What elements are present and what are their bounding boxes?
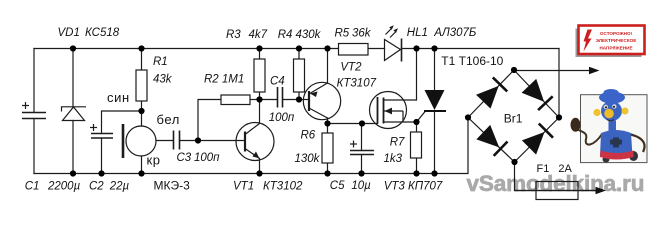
svg-text:36k: 36k [352,27,372,39]
wire R3 leads [259,49,261,60]
svg-text:VD1: VD1 [58,27,80,39]
svg-text:R1: R1 [153,56,168,68]
svg-text:HL1: HL1 [407,27,428,39]
node T1 anode top [431,45,437,51]
node C5 top / VT3 gate [359,120,365,126]
warning sign [576,26,645,58]
node T1 cathode bottom [431,170,437,176]
resistor R1 [136,70,147,101]
resistor R4 [294,59,305,92]
svg-text:22µ: 22µ [109,181,130,193]
neck [609,121,617,132]
svg-text:VT3 КП707: VT3 КП707 [384,181,443,193]
wire VT2 emitter riser [327,49,329,84]
svg-text:VT1: VT1 [233,180,254,192]
resistor R6 [322,133,333,163]
bridge Br1 [468,70,559,162]
wire left edge C1 branch [33,49,35,113]
svg-text:VT2: VT2 [340,62,362,74]
node R3 C4 [256,96,262,102]
wire top rail left [34,48,339,50]
LED HL1 [385,25,402,61]
resistor R3 [254,59,265,92]
node VD1 bottom [70,170,76,176]
node bridge bottom [511,159,517,165]
node mic bottom [138,170,144,176]
svg-text:vSamodelkina.ru: vSamodelkina.ru [467,171,645,196]
belt [600,151,634,160]
wire R5 to LED [368,48,385,50]
wire VD1 branch [72,49,74,107]
node R7 bottom [413,170,419,176]
wire LED cathode to right corner [402,48,560,50]
capacitor C4 [278,87,283,108]
resistor R5 [339,44,369,56]
node VT3 source R7 [413,119,419,125]
wire bridge top output [514,70,590,72]
wire bottom rail [34,118,468,174]
svg-text:Br1: Br1 [504,112,523,126]
wire VT1 emitter fall [259,159,261,174]
right arm wire [628,134,645,152]
node R3 top [256,45,262,51]
node bridge right [556,114,562,120]
capacitor C5 [350,141,374,155]
svg-text:1k3: 1k3 [384,153,403,165]
wire T1 gate [417,111,426,122]
wire R7 leads [416,122,418,132]
svg-text:100п: 100п [194,152,220,164]
svg-text:КТ3107: КТ3107 [337,78,377,90]
thyristor T1 [424,90,446,111]
fist plug [571,118,581,132]
node bridge left [465,114,471,120]
arrow output top [589,67,600,74]
wire C4 leads [260,99,278,101]
wire mic bottom [141,156,143,174]
svg-text:2А: 2А [558,163,572,175]
wire R6 bottom [327,163,329,174]
svg-text:F1: F1 [537,163,550,175]
wire T1 anode [434,49,436,91]
wire right vertical to bridge [558,49,560,118]
robot photo [571,89,648,163]
capacitor C1 [22,102,46,119]
svg-text:ЭЛЕКТРИЧЕСКОЕ: ЭЛЕКТРИЧЕСКОЕ [596,38,637,43]
svg-text:КТ3102: КТ3102 [263,180,303,192]
node bridge top [511,67,517,73]
svg-text:C5: C5 [330,180,345,192]
svg-text:R4: R4 [278,29,293,41]
wire T1 cathode [434,111,436,174]
svg-text:10µ: 10µ [351,180,371,192]
transistor VT2 [303,82,340,119]
svg-text:4k7: 4k7 [249,29,268,41]
svg-text:кр: кр [147,153,161,168]
svg-text:син: син [107,90,130,105]
bridge diode D4 bottom-right [522,124,553,155]
wire VT2 base [299,99,309,101]
bridge diode D1 top-left [476,77,507,108]
node R4 top [296,45,302,51]
node C3 R2 [195,137,201,143]
wire C2 riser [102,111,142,134]
resistor R2 [221,95,250,105]
capacitor C3 [174,131,180,150]
fuse F1 [515,182,597,200]
chest cross [613,138,619,148]
wire R2 left lead [198,100,221,141]
wire R1 bottom to mic [141,101,143,126]
bridge diode D3 bottom-left [476,125,507,156]
left arm wire [577,129,602,145]
svg-text:КС518: КС518 [85,27,120,39]
wire collector bus to gate [328,123,378,125]
wire VT3 source to node [384,121,417,123]
wire mic to C3 [156,140,173,142]
svg-text:43k: 43k [153,74,173,86]
arrow output bottom [596,187,607,194]
bridge diode D2 top-right [522,79,553,110]
microphone MKE-3 [123,124,156,158]
svg-text:C1: C1 [25,181,40,193]
svg-text:R6: R6 [301,130,316,142]
svg-text:R2 1M1: R2 1M1 [204,74,244,86]
zener diode VD1 [62,107,87,121]
ear left [593,109,600,116]
body [600,130,633,159]
svg-text:ОСТОРОЖНО!: ОСТОРОЖНО! [600,31,633,36]
wire bridge bottom output [515,162,597,191]
node VT2 emitter top [324,45,330,51]
node R6 bottom [324,170,330,176]
eyes [604,105,608,109]
node C2 bottom [98,170,104,176]
wire R2 right lead [250,99,260,101]
node R4 VT2 base [296,96,302,102]
svg-text:130k: 130k [295,153,321,165]
svg-text:100п: 100п [269,112,295,124]
wire R4 leads [298,49,300,60]
svg-text:R5: R5 [335,27,350,39]
lightning bolt [584,30,593,52]
svg-text:C2: C2 [89,181,104,193]
svg-text:АЛ307Б: АЛ307Б [433,27,477,39]
wire VT3 drain riser [384,49,417,101]
node VT3 drain top [413,45,419,51]
node C5 bottom [358,170,364,176]
mouth [607,120,614,121]
wire VT2 collector down [327,118,329,133]
node VT1 emitter bottom [256,170,262,176]
svg-text:R7: R7 [390,137,405,149]
capacitor C2 [90,124,113,138]
wire C5 leads [361,124,363,151]
svg-text:C3: C3 [177,152,192,164]
svg-text:НАПРЯЖЕНИЕ: НАПРЯЖЕНИЕ [599,46,632,51]
feet [603,157,610,163]
node R1 mic [138,108,144,114]
head [601,101,622,121]
node VT2 collector [324,120,330,126]
svg-text:МКЭ-3: МКЭ-3 [154,179,191,193]
wire VT1 collector riser [259,100,261,123]
node VD1 top [70,45,76,51]
svg-text:бел: бел [157,112,180,127]
wire R1 top [141,49,143,71]
wire C3 to VT1 base [180,140,246,142]
svg-text:430k: 430k [296,29,322,41]
svg-text:R3: R3 [226,29,241,41]
transistor VT1 [236,123,274,161]
svg-text:T1 Т106-10: T1 Т106-10 [441,54,503,68]
MOSFET VT3 [370,92,407,129]
beret [599,92,625,104]
node R1 top [138,45,144,51]
svg-text:2200µ: 2200µ [47,181,81,193]
nose [604,109,614,119]
ear right [622,108,629,115]
resistor R7 [411,132,422,158]
svg-text:C4: C4 [270,76,285,88]
